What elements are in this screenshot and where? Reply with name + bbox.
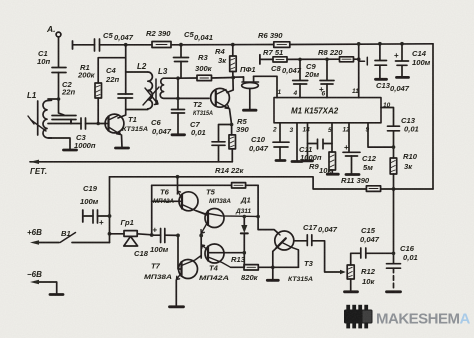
- wire C9 to pin6: [326, 84, 328, 98]
- wire L1 bottom to ground: [48, 138, 70, 149]
- node R1 bottom: [96, 122, 100, 126]
- wire top rail left end bar: [72, 41, 74, 49]
- inductor L2: [126, 71, 148, 73]
- ground R12: [345, 290, 358, 293]
- node R10 row: [392, 187, 396, 191]
- R12 wiper arrowhead: [340, 270, 346, 274]
- diode D1: [243, 217, 245, 226]
- wire R7 row left bar: [259, 55, 261, 64]
- transistor T6: [179, 192, 198, 211]
- wire C6 to ground: [177, 113, 179, 134]
- ground pin14: [303, 159, 313, 162]
- resistor R2: [152, 42, 171, 48]
- ground T3 base: [267, 279, 278, 282]
- filter PF1: [244, 76, 254, 81]
- resistor R7: [273, 57, 287, 62]
- ground pin3: [292, 160, 302, 163]
- wire C16 bottom dashed: [393, 268, 395, 290]
- IC M1 К157ХА2: [274, 98, 381, 123]
- resistor R12 potentiometer: [347, 265, 354, 279]
- transistor T1: [105, 114, 124, 133]
- resistor R8: [340, 57, 354, 62]
- wire top rail to C5: [73, 44, 95, 46]
- ground R9: [327, 173, 338, 176]
- node C19 junction: [108, 214, 112, 218]
- resistor R3: [197, 75, 212, 80]
- wire T4 base right: [208, 252, 244, 254]
- ground PF1: [244, 109, 257, 112]
- wire L3 node down to C6: [177, 78, 179, 109]
- node C5b top: [179, 43, 183, 47]
- wire T6 base left: [152, 200, 182, 202]
- node D1 base row: [243, 251, 247, 255]
- -6V arrowhead: [30, 280, 39, 284]
- wire junction down to C2: [59, 99, 65, 115]
- node C9 top: [325, 58, 329, 62]
- capacitor C19: [82, 210, 84, 222]
- node output: [199, 234, 203, 238]
- capacitor C2: [52, 116, 76, 120]
- wire T7 base left: [178, 235, 182, 269]
- capacitor C4: [118, 94, 133, 98]
- wire PF1 to ground: [249, 89, 251, 110]
- transistor T2: [211, 88, 230, 107]
- capacitor C10: [273, 142, 289, 147]
- node T7 base junction: [176, 234, 180, 238]
- wire T3 base ground: [272, 267, 274, 279]
- capacitor C7: [212, 142, 225, 146]
- node T5 collector: [256, 215, 260, 219]
- capacitor C11: [308, 139, 333, 149]
- capacitor stub near pin11: [359, 57, 368, 65]
- wire tank vertical: [125, 45, 127, 94]
- resistor R1: [95, 83, 102, 98]
- wire T3 base vertical: [273, 245, 280, 267]
- ground C16: [387, 290, 401, 293]
- node C14 top: [400, 42, 404, 46]
- resistor R14: [232, 183, 246, 188]
- wire C3 to T1 base: [86, 123, 108, 125]
- capacitor C6: [172, 110, 185, 114]
- node L1 top: [57, 97, 61, 101]
- wire pin14 down: [307, 123, 309, 160]
- wire C15 right to C16 line: [366, 252, 394, 254]
- wire L3 bottom to T2 base: [178, 97, 209, 99]
- wire R13 row right: [258, 266, 298, 268]
- wire R4 top: [232, 45, 234, 56]
- node R8 pin11: [357, 57, 361, 61]
- capacitor C5: [95, 39, 100, 51]
- wire pin10 right: [381, 108, 394, 126]
- wire R14 row: [152, 184, 258, 186]
- capacitor C18: [161, 229, 165, 243]
- transistor T4: [205, 244, 224, 263]
- node A terminal: [56, 32, 61, 37]
- resistor R6: [274, 42, 290, 48]
- capacitor C17: [307, 235, 312, 246]
- ground T1: [116, 147, 129, 150]
- wire to Gr1: [110, 233, 125, 235]
- capacitor C8: [299, 59, 301, 80]
- resistor R13: [244, 265, 258, 270]
- wire C2 to base row: [70, 120, 72, 124]
- wire C13b to junction: [393, 131, 395, 158]
- wire R7 to C8 junction: [287, 58, 340, 60]
- node C13a top: [378, 42, 382, 46]
- ground C13a: [376, 78, 387, 81]
- wire PF1 out to pin1: [254, 76, 277, 97]
- resistor R11: [366, 186, 380, 192]
- wire pin5 down: [331, 123, 333, 152]
- ground T7: [170, 305, 184, 308]
- node pin11 top: [357, 42, 361, 46]
- L2 adjuster arrow: [143, 87, 159, 105]
- wire pin3 down: [296, 123, 298, 161]
- resistor R9: [329, 152, 336, 170]
- wire C1 to junction: [48, 73, 59, 100]
- switch V1: [39, 242, 60, 244]
- node T2 emitter: [230, 123, 234, 127]
- ground L1: [64, 149, 77, 152]
- wire R9 bottom: [331, 170, 333, 173]
- ground pin2: [276, 159, 285, 162]
- wire R2 to R6: [171, 44, 274, 46]
- capacitor C12: [343, 152, 360, 156]
- node T2 collector: [231, 76, 235, 80]
- +6V arrowhead: [30, 240, 39, 244]
- ground -6V: [50, 293, 63, 296]
- wire R10 bottom: [393, 174, 395, 189]
- capacitor C16: [387, 264, 401, 269]
- ground C12: [346, 173, 359, 176]
- wire top right corner down: [432, 44, 434, 189]
- wire C5 to R2: [100, 44, 153, 46]
- wire R14 right corner down: [258, 185, 278, 233]
- wire R3 right: [212, 77, 234, 80]
- wire emitter to C7: [219, 125, 232, 142]
- wire -6V: [39, 282, 57, 294]
- wire R8 right to pin11 line: [354, 58, 359, 60]
- inductor L1: [37, 101, 39, 135]
- L1 adjuster arrow: [31, 120, 46, 131]
- node L3 top: [176, 76, 180, 80]
- capacitor C13a: [379, 44, 381, 60]
- wire pin12 down: [348, 123, 350, 152]
- wire C17 to R12 wiper: [312, 241, 343, 272]
- node T3 base bottom: [271, 266, 275, 270]
- node tank top: [124, 43, 128, 47]
- wire R10 line down to C16: [393, 189, 395, 263]
- wire C7 to het row: [218, 145, 220, 162]
- transistor T5: [205, 209, 224, 228]
- wire C4 to T1 collector: [118, 98, 126, 118]
- wire base row: [48, 123, 81, 125]
- wire T3 emitter to C17: [294, 240, 307, 242]
- wire R3 left: [178, 77, 197, 79]
- capacitor C9: [326, 59, 328, 80]
- wire HET row: [30, 161, 232, 163]
- node D1 top: [243, 215, 247, 219]
- capacitor C5b: [180, 45, 182, 57]
- wire output node vertical: [200, 233, 202, 258]
- inductor L3: [160, 78, 177, 98]
- wire R1 top: [98, 58, 126, 83]
- wire R12 top: [351, 253, 361, 265]
- node R4 top: [231, 43, 235, 47]
- node Gr1 junction: [108, 232, 112, 236]
- node C15 junction: [392, 252, 396, 256]
- wire C2 bottom: [70, 120, 72, 124]
- transistor T3: [275, 231, 294, 250]
- wire pin9 down and right: [368, 123, 394, 147]
- wire R6 to right: [290, 43, 433, 46]
- speaker Gr1: [124, 231, 137, 237]
- wire pin11 vertical: [358, 44, 360, 98]
- capacitor C13b: [388, 126, 400, 131]
- wire R11 right: [381, 188, 433, 190]
- wire R7 row: [261, 58, 274, 60]
- wire node to PF1: [233, 76, 243, 78]
- transistor T7: [179, 260, 198, 279]
- node rail T6: [176, 175, 180, 179]
- resistor R5: [229, 135, 236, 149]
- wire antenna down: [58, 37, 60, 67]
- ground C6: [172, 133, 185, 136]
- wire R12 bottom: [350, 279, 352, 291]
- wire Gr1 right: [137, 234, 152, 235]
- wire R5 bottom: [231, 149, 233, 162]
- wire T6 emitter up: [177, 177, 179, 191]
- wire T7 emitter down: [175, 280, 177, 306]
- wire pin2 down: [279, 123, 281, 142]
- wire R1 bottom: [97, 98, 99, 124]
- transformer core: [155, 79, 157, 104]
- resistor R10: [390, 158, 397, 174]
- wire V1 column: [109, 177, 111, 243]
- wire T1 emitter down: [121, 135, 124, 148]
- node L3 bottom: [176, 97, 180, 101]
- wire R14 left corner down: [151, 185, 153, 235]
- HET arrowhead: [30, 160, 39, 164]
- resistor R4: [230, 56, 237, 72]
- wire T2 emitter down: [230, 109, 232, 135]
- wire R4 bottom to T2 collector: [227, 72, 233, 93]
- capacitor C3: [81, 118, 86, 129]
- ground C14: [397, 76, 409, 79]
- node C8 top: [298, 58, 302, 62]
- wire C8 to pin4: [299, 84, 301, 98]
- capacitor C1: [52, 68, 66, 73]
- wire audio rail: [110, 177, 367, 189]
- wire R13 row left: [231, 266, 244, 268]
- node C18 left junction: [150, 233, 154, 237]
- capacitor C15: [361, 248, 366, 258]
- node pin9 junction: [392, 145, 396, 149]
- capacitor C14: [401, 44, 403, 61]
- logo chip icon: [344, 305, 373, 329]
- wire T3 emitter down-right: [297, 250, 299, 267]
